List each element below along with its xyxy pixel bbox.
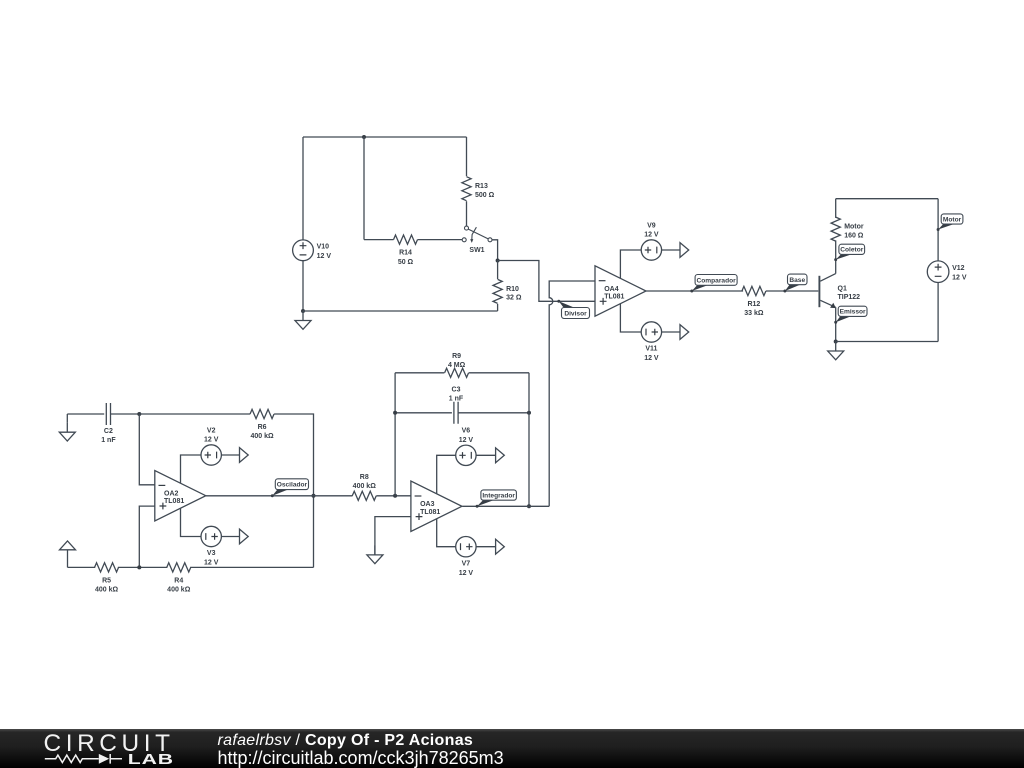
voltage source V12	[927, 261, 967, 283]
svg-text:12 V: 12 V	[459, 570, 474, 577]
power flag at V11	[680, 325, 689, 340]
wire bottom return to R10	[303, 310, 498, 312]
resistor R4	[167, 563, 191, 594]
svg-text:12 V: 12 V	[644, 232, 659, 239]
wire R6 to right feedback rail	[274, 414, 313, 567]
svg-text:4 MΩ: 4 MΩ	[448, 362, 466, 369]
junction emitter ground node	[834, 340, 838, 344]
wire C2 right lead	[111, 413, 140, 415]
svg-text:12 V: 12 V	[459, 437, 474, 444]
wire divisor node to OA4 non-inverting input	[498, 261, 595, 302]
capacitor C3	[449, 387, 464, 424]
svg-text:TIP122: TIP122	[838, 294, 861, 301]
transistor Q1 TIP122	[819, 274, 860, 309]
svg-text:Emissor: Emissor	[840, 309, 866, 316]
wire R14 left lead	[364, 239, 394, 241]
net flag Coletor	[834, 244, 864, 261]
wire bottom rail to V12	[836, 341, 938, 343]
svg-text:V6: V6	[462, 428, 471, 435]
svg-text:Q1: Q1	[838, 285, 847, 292]
ground at Q1 emitter	[828, 342, 844, 360]
power flag at V9	[680, 243, 689, 258]
logo diode triangle	[99, 754, 109, 764]
net flag Oscilador	[271, 479, 309, 498]
wire R5 to R4	[118, 566, 167, 568]
svg-text:12 V: 12 V	[952, 274, 967, 281]
svg-text:R8: R8	[360, 474, 369, 481]
wire V3 to power flag	[221, 536, 239, 538]
wire OA4 output to R12	[646, 290, 743, 292]
wire motor resistor top lead	[835, 199, 837, 218]
wire V12 top lead	[937, 199, 939, 261]
voltage source V9	[641, 222, 661, 260]
wire R14 to SW1 throw	[418, 239, 463, 241]
wire V2 to power flag	[221, 454, 239, 456]
svg-text:Divisor: Divisor	[564, 310, 587, 317]
wire C3 left lead	[395, 412, 452, 414]
svg-text:Base: Base	[789, 277, 805, 284]
svg-text:OA4: OA4	[604, 286, 619, 293]
wire V9 to power flag	[662, 249, 680, 251]
svg-text:rafaelrbsv / Copy Of - P2 Acio: rafaelrbsv / Copy Of - P2 Acionas	[218, 732, 474, 749]
power flag at V7	[496, 539, 505, 554]
wire OA4 V+ pin to V9	[620, 250, 641, 279]
svg-text:C2: C2	[104, 428, 113, 435]
wire feedback left rail	[394, 373, 396, 496]
junction C3 right / feedback rail	[527, 411, 531, 415]
wire OA3 V- pin to V7	[437, 519, 456, 547]
junction C2 / R6 / inverting input	[137, 412, 141, 416]
svg-text:C3: C3	[452, 387, 461, 394]
svg-text:400 kΩ: 400 kΩ	[95, 587, 119, 594]
resistor R14	[394, 235, 418, 266]
junction R5/R4/non-inverting input	[137, 565, 141, 569]
wire to R9	[395, 372, 444, 374]
junction C3 left / feedback rail	[393, 411, 397, 415]
op-amp OA3	[411, 481, 462, 531]
wire R10 top lead	[497, 261, 499, 280]
wire OA3 output	[462, 505, 549, 507]
wire integrador output to OA4 inverting input (with hop)	[549, 281, 595, 506]
svg-text:R12: R12	[747, 301, 760, 308]
wire C3 right lead	[458, 412, 529, 414]
svg-text:1 nF: 1 nF	[449, 396, 464, 403]
power flag at V6	[496, 448, 505, 463]
ground at C2	[59, 423, 75, 441]
wire V10 bottom lead	[302, 261, 304, 311]
svg-text:400 kΩ: 400 kΩ	[250, 433, 274, 440]
net flag Base	[783, 274, 807, 292]
voltage source V2	[201, 427, 221, 465]
wire OA2 V- pin to V3	[181, 508, 202, 536]
svg-text:50 Ω: 50 Ω	[398, 259, 414, 266]
net flag Comparador	[690, 275, 737, 293]
svg-text:SW1: SW1	[469, 247, 484, 254]
wire OA2 non-inverting input to R5/R4 node	[139, 506, 155, 567]
svg-text:R9: R9	[452, 353, 461, 360]
op-amp OA4	[595, 266, 646, 316]
svg-text:R14: R14	[399, 250, 412, 257]
wire R8 to OA3 inverting input	[376, 495, 411, 497]
power flag at V3	[240, 529, 249, 544]
voltage source V10	[293, 240, 332, 261]
wire V11 to power flag	[662, 331, 680, 333]
svg-text:12 V: 12 V	[204, 560, 219, 567]
resistor R9	[445, 353, 469, 377]
svg-text:33 kΩ: 33 kΩ	[744, 310, 764, 317]
wire OA3 V+ pin to V6	[437, 455, 456, 493]
power flag at V2	[240, 448, 249, 463]
svg-text:R13: R13	[475, 183, 488, 190]
wire OA3 non-inverting input to ground	[375, 517, 411, 555]
wire V10 top lead	[302, 137, 304, 240]
svg-text:V11: V11	[645, 346, 657, 353]
wire OA4 V- pin to V11	[620, 303, 641, 332]
net flag Divisor	[557, 300, 589, 319]
svg-text:V2: V2	[207, 427, 216, 434]
junction top rail / R14 branch	[362, 135, 366, 139]
svg-text:Integrador: Integrador	[482, 492, 515, 499]
wire Q1 collector lead	[835, 240, 837, 273]
wire C2 ground stem	[66, 414, 68, 423]
capacitor C2	[101, 403, 116, 444]
wire R13 top lead	[466, 137, 468, 176]
svg-text:V3: V3	[207, 550, 216, 557]
resistor R5	[95, 563, 119, 594]
CircuitLab logo resistor-diode glyph	[45, 754, 122, 764]
junction feedback / integrador output	[527, 504, 531, 508]
svg-text:LAB: LAB	[128, 751, 174, 767]
wire R10 bottom lead	[497, 304, 499, 311]
voltage source V11	[641, 322, 661, 362]
net flag Integrador	[476, 490, 517, 508]
svg-text:http://circuitlab.com/cck3jh78: http://circuitlab.com/cck3jh78265m3	[218, 748, 504, 768]
wire Q1 emitter lead	[835, 307, 837, 341]
net flag Emissor	[834, 306, 867, 324]
resistor Motor	[831, 217, 864, 241]
resistor R10	[493, 279, 522, 303]
svg-text:400 kΩ: 400 kΩ	[353, 483, 377, 490]
wire to R5	[68, 566, 96, 568]
net flag Motor	[937, 214, 963, 231]
wire to OA2 inverting input	[139, 414, 155, 485]
junction oscilador output / feedback rail	[312, 494, 316, 498]
junction divisor node	[496, 259, 500, 263]
svg-text:Coletor: Coletor	[840, 247, 864, 254]
svg-text:R5: R5	[102, 577, 111, 584]
svg-text:Motor: Motor	[943, 216, 962, 223]
svg-text:500 Ω: 500 Ω	[475, 192, 495, 199]
wire R14 branch vertical	[363, 137, 365, 240]
svg-text:32 Ω: 32 Ω	[506, 295, 522, 302]
svg-text:V10: V10	[317, 244, 330, 251]
svg-text:V7: V7	[462, 560, 471, 567]
junction R8 / feedback	[393, 494, 397, 498]
svg-text:12 V: 12 V	[317, 253, 332, 260]
wire C2 left lead	[67, 413, 104, 415]
wire R9 to right rail	[469, 372, 529, 374]
svg-text:R4: R4	[174, 577, 183, 584]
wire R13 to SW1 pole	[466, 201, 468, 226]
wire R12 to Q1 base	[766, 290, 818, 292]
wire R4 to feedback rail	[190, 566, 313, 568]
svg-text:V9: V9	[647, 222, 656, 229]
resistor R6	[250, 409, 274, 440]
svg-text:OA3: OA3	[420, 501, 435, 508]
svg-text:12 V: 12 V	[644, 355, 659, 362]
svg-text:R6: R6	[258, 424, 267, 431]
wire V12 bottom lead	[937, 283, 939, 342]
CircuitLab logo text LAB	[128, 751, 174, 767]
op-amp OA2	[155, 471, 206, 521]
svg-text:TL081: TL081	[164, 498, 184, 505]
svg-text:1 nF: 1 nF	[101, 437, 116, 444]
svg-text:400 kΩ: 400 kΩ	[167, 587, 191, 594]
voltage source V3	[201, 526, 221, 566]
voltage source V7	[456, 537, 476, 577]
voltage source V6	[456, 428, 476, 466]
wire SW1 to divisor node	[492, 240, 498, 261]
ground at V10	[295, 311, 311, 329]
ground at OA3	[367, 545, 383, 563]
svg-text:Oscilador: Oscilador	[277, 482, 308, 489]
wire OA2 output to R8	[206, 495, 353, 497]
wire top rail V10 to R13	[303, 136, 467, 138]
resistor R13	[462, 177, 495, 201]
svg-text:Comparador: Comparador	[696, 277, 736, 284]
wire V6 to power flag	[476, 454, 496, 456]
junction V10 ground node	[301, 309, 305, 313]
svg-text:TL081: TL081	[420, 509, 440, 516]
svg-text:Motor: Motor	[844, 224, 864, 231]
wire V7 to power flag	[476, 546, 496, 548]
svg-text:OA2: OA2	[164, 491, 179, 498]
svg-text:V12: V12	[952, 265, 965, 272]
svg-text:160 Ω: 160 Ω	[844, 232, 864, 239]
switch SW1	[462, 226, 492, 254]
svg-text:12 V: 12 V	[204, 437, 219, 444]
wire to R6	[139, 413, 250, 415]
node flag at R5	[60, 541, 76, 567]
wire feedback right rail	[528, 373, 530, 507]
resistor R12	[742, 286, 766, 317]
resistor R8	[352, 474, 376, 500]
svg-text:R10: R10	[506, 286, 519, 293]
wire OA2 V+ pin to V2	[181, 455, 202, 483]
wire top rail to V12	[836, 198, 938, 200]
svg-text:TL081: TL081	[604, 294, 624, 301]
